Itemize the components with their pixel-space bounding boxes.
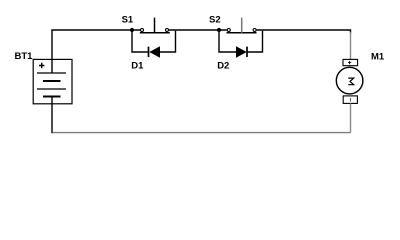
motor M1 letter M (rotated 90deg, drawn as path) (348, 78, 354, 85)
diode D1 cathode bar (148, 47, 150, 57)
diode D2 cathode bar (246, 47, 248, 57)
switch S1 actuator bar (140, 32, 170, 34)
svg-text:M1: M1 (371, 51, 385, 62)
motor M1 top terminal box (343, 59, 358, 65)
svg-text:S1: S1 (122, 14, 134, 25)
wire: bottom rail (ratsnest grey) (53, 132, 351, 134)
motor M1 top terminal plus (348, 61, 351, 64)
wire: D2 branch right lead and rise (248, 31, 263, 52)
battery plate short (-) (43, 96, 61, 98)
svg-text:S2: S2 (209, 14, 221, 25)
battery plate short (-) (43, 80, 61, 82)
svg-text:BT1: BT1 (15, 51, 34, 62)
node: junction dot at S1 (130, 28, 134, 32)
battery plate long (+) (37, 88, 66, 90)
switch S2 actuator bar (227, 32, 257, 34)
wire: top rail right segment (S2 right contact to motor corner) (257, 30, 351, 34)
svg-text:D1: D1 (131, 60, 144, 71)
diode D1 triangle (pointing left) (149, 46, 160, 58)
wire: D1 branch right lead and rise (160, 31, 176, 52)
switch S2 contact pins (227, 29, 230, 32)
wire: motor bottom lead (grey) (350, 104, 352, 133)
battery BT1 plus sign (39, 63, 44, 68)
motor M1 body circle (336, 67, 363, 94)
wire: top rail left segment (battery corner to S1 left contact) (51, 29, 140, 31)
switch S2 actuator stem (241, 18, 243, 33)
wire: top rail middle segment (S1 right contact to S2 left contact) (169, 29, 227, 31)
switch S1 actuator stem (154, 18, 156, 33)
motor M1 bottom terminal minus (rotated, vertical tick) (349, 98, 351, 102)
motor M1 bottom terminal box (343, 96, 357, 104)
diode D2 triangle (pointing right) (236, 46, 247, 58)
wire: battery negative lead down to bottom rail (51, 97, 53, 134)
battery plate long (+) (37, 72, 66, 74)
svg-text:D2: D2 (217, 61, 229, 72)
wire: battery positive lead up to top rail (51, 30, 53, 73)
wire: D1 branch left drop and lead (132, 31, 148, 52)
wire: motor top lead (grey) (350, 32, 352, 59)
node: junction dot at S2 (217, 28, 221, 32)
switch S1 contact pins (141, 29, 144, 32)
battery BT1 outline box (33, 59, 72, 103)
wire: D2 branch left drop and lead (219, 31, 236, 52)
